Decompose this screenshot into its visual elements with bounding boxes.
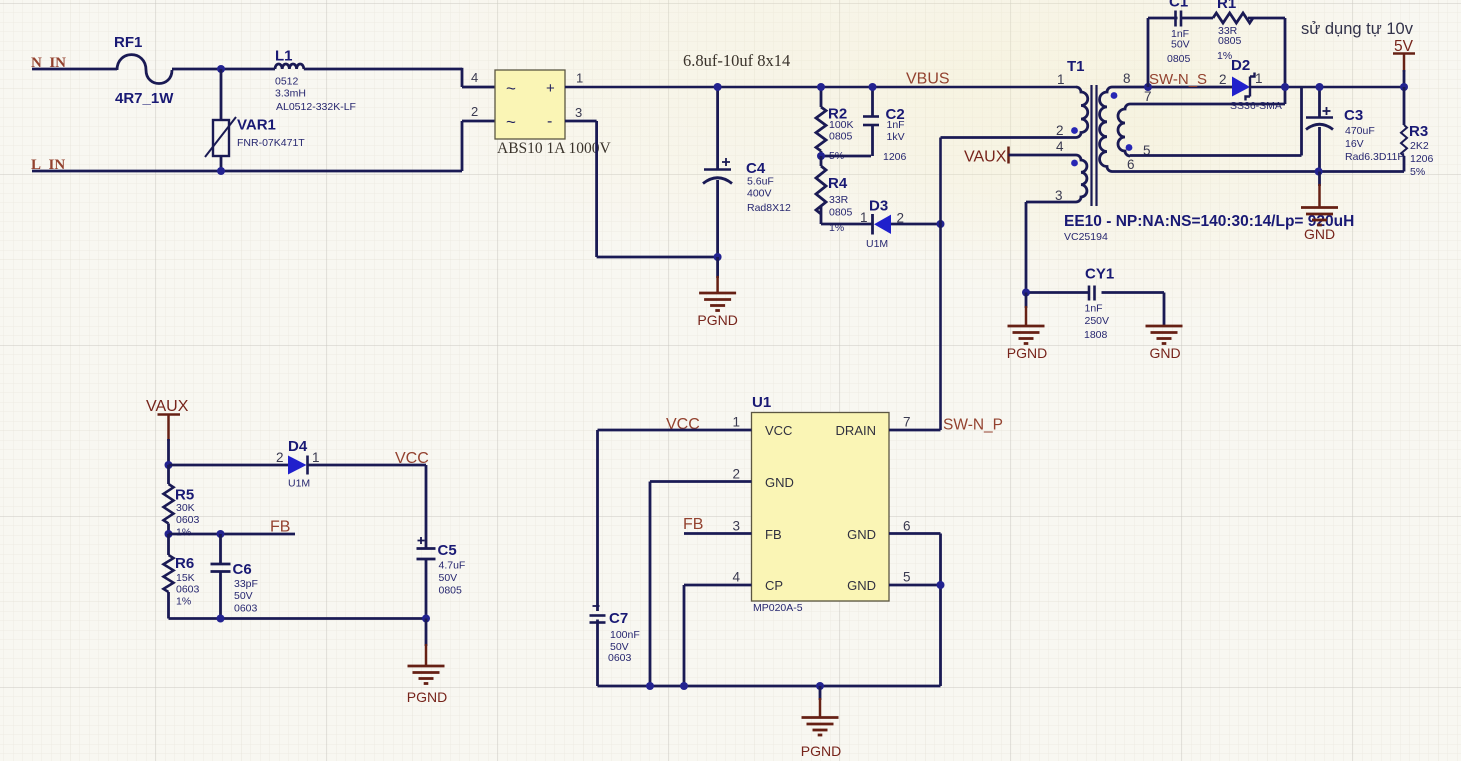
svg-text:0512: 0512 xyxy=(275,76,299,88)
svg-text:+: + xyxy=(546,80,555,97)
bridge rectifier ABS10 xyxy=(495,70,611,157)
wire transformer pin7 xyxy=(1130,103,1285,106)
svg-text:U1M: U1M xyxy=(288,478,310,490)
svg-text:5.6uF: 5.6uF xyxy=(747,176,774,188)
svg-text:C7: C7 xyxy=(609,610,628,627)
svg-text:C3: C3 xyxy=(1344,107,1363,124)
svg-text:R3: R3 xyxy=(1409,123,1428,140)
junction node L_IN / VAR1 xyxy=(217,167,225,175)
diode D3 xyxy=(860,198,904,251)
svg-text:2: 2 xyxy=(1219,72,1227,87)
svg-text:MP020A-5: MP020A-5 xyxy=(753,602,803,614)
capacitor C7 xyxy=(590,606,640,686)
wire transformer pin3 to CY1/PGND xyxy=(1026,201,1076,204)
wire D2 cathode to output xyxy=(1250,86,1404,89)
svg-text:DRAIN: DRAIN xyxy=(836,423,876,438)
svg-text:2K2: 2K2 xyxy=(1410,140,1429,152)
svg-text:1%: 1% xyxy=(176,596,191,608)
svg-text:0603: 0603 xyxy=(608,652,632,664)
svg-text:ABS10 1A 1000V: ABS10 1A 1000V xyxy=(497,140,611,157)
junction node rail/R2 xyxy=(817,83,825,91)
wire pin3 node to CY1 xyxy=(1026,291,1088,294)
junction node C3/gnd rail xyxy=(1315,168,1323,176)
svg-text:6.8uf-10uf 8x14: 6.8uf-10uf 8x14 xyxy=(683,51,790,70)
resistor R2 xyxy=(816,87,854,162)
capacitor C3 xyxy=(1306,87,1405,172)
power ground PGND under C4 xyxy=(697,257,737,328)
resistor R4 xyxy=(816,156,853,234)
svg-text:FB: FB xyxy=(765,527,782,542)
junction node VAUX/R5/D4 xyxy=(165,461,173,469)
svg-text:33R: 33R xyxy=(829,194,849,206)
svg-text:1: 1 xyxy=(312,450,320,465)
svg-text:33pF: 33pF xyxy=(234,578,258,590)
svg-text:PGND: PGND xyxy=(801,743,841,759)
svg-text:3: 3 xyxy=(732,519,740,534)
wire N_IN to RF1 xyxy=(32,68,117,71)
transformer T1 primary winding pins 1-2 xyxy=(1076,87,1088,138)
svg-text:-: - xyxy=(547,113,552,130)
junction node D3/SW-N_P xyxy=(937,220,945,228)
svg-text:0603: 0603 xyxy=(234,603,258,615)
wire snubber right vertical to pin7 xyxy=(1284,18,1287,104)
svg-text:1: 1 xyxy=(1255,71,1263,86)
varistor VAR1 xyxy=(205,69,305,171)
svg-text:4.7uF: 4.7uF xyxy=(439,560,466,572)
svg-text:SW-N_P: SW-N_P xyxy=(943,417,1003,434)
svg-text:R6: R6 xyxy=(175,555,194,572)
power port VAUX (to transformer pin 4) xyxy=(964,147,1009,166)
svg-text:VAUX: VAUX xyxy=(964,149,1007,166)
capacitor C4 xyxy=(703,87,791,257)
capacitor C6 xyxy=(211,534,258,619)
transformer T1 secondary winding pins 8-6 xyxy=(1100,87,1112,171)
svg-text:AL0512-332K-LF: AL0512-332K-LF xyxy=(276,101,356,113)
svg-text:0805: 0805 xyxy=(829,131,853,143)
wire VBUS rail from bridge pin1 to transformer pin1 xyxy=(565,86,1076,89)
svg-text:R1: R1 xyxy=(1217,0,1236,12)
wire L1 to bridge pin 4 xyxy=(304,68,462,71)
wire FB xyxy=(169,533,296,536)
svg-text:VC25194: VC25194 xyxy=(1064,231,1108,243)
capacitor C2 xyxy=(863,87,907,163)
svg-text:1%: 1% xyxy=(176,527,191,539)
svg-text:R5: R5 xyxy=(175,487,194,504)
svg-text:1%: 1% xyxy=(1217,50,1232,62)
power port VAUX bottom left xyxy=(146,398,189,465)
svg-text:~: ~ xyxy=(506,79,516,98)
svg-text:VAUX: VAUX xyxy=(146,398,189,415)
resistor RF1 (fusible) xyxy=(114,34,174,107)
svg-text:GND: GND xyxy=(765,475,794,490)
svg-text:3: 3 xyxy=(1055,188,1063,203)
svg-text:FNR-07K471T: FNR-07K471T xyxy=(237,137,305,149)
power ground PGND under U1 xyxy=(801,686,841,759)
svg-text:GND: GND xyxy=(847,527,876,542)
wire snubber left vertical xyxy=(1147,18,1150,87)
wire U1 pin5 xyxy=(889,584,941,587)
wire D3 to SW-N_P node xyxy=(891,223,941,226)
wire VAUX to transformer pin4 xyxy=(1009,154,1077,157)
svg-text:U1M: U1M xyxy=(866,238,888,250)
svg-text:4: 4 xyxy=(1056,139,1064,154)
svg-text:100K: 100K xyxy=(829,119,854,131)
svg-text:FB: FB xyxy=(270,519,290,536)
resistor R1 xyxy=(1181,0,1285,62)
svg-text:0603: 0603 xyxy=(176,584,200,596)
svg-text:0805: 0805 xyxy=(1218,35,1242,47)
svg-text:C1: C1 xyxy=(1169,0,1188,11)
ground GND under C3 xyxy=(1301,172,1338,243)
svg-text:R4: R4 xyxy=(828,175,848,192)
ground GND right of CY1 xyxy=(1146,326,1183,361)
junction node SW-N_S/snubber xyxy=(1144,83,1152,91)
power port 5V xyxy=(1393,38,1415,87)
svg-text:4: 4 xyxy=(732,570,740,585)
svg-text:1: 1 xyxy=(732,415,740,430)
wire VAUX node to D4 xyxy=(169,464,289,467)
svg-text:4R7_1W: 4R7_1W xyxy=(115,90,174,107)
svg-text:1808: 1808 xyxy=(1084,329,1108,341)
svg-text:C6: C6 xyxy=(233,561,252,578)
IC U1 body xyxy=(752,394,890,614)
wire U1 pin2 to rail xyxy=(650,480,752,483)
wire D4 to VCC corner xyxy=(308,464,427,467)
svg-text:16V: 16V xyxy=(1345,138,1364,150)
diode D2 schottky xyxy=(1230,57,1282,112)
svg-text:1: 1 xyxy=(1057,72,1065,87)
junction node at VAR1 top xyxy=(217,65,225,73)
svg-text:CP: CP xyxy=(765,578,783,593)
svg-text:470uF: 470uF xyxy=(1345,125,1375,137)
junction node rail/C2 xyxy=(869,83,877,91)
wire transformer pin8 to D2 xyxy=(1112,86,1232,89)
capacitor C1 xyxy=(1148,0,1191,65)
svg-text:1206: 1206 xyxy=(1410,153,1434,165)
junction node PGND tap xyxy=(816,682,824,690)
svg-text:SS36-SMA: SS36-SMA xyxy=(1230,100,1282,112)
junction node R5/R6/FB xyxy=(165,530,173,538)
wire U1 pin7 drain xyxy=(889,429,941,432)
svg-text:PGND: PGND xyxy=(1007,345,1047,361)
svg-text:3.3mH: 3.3mH xyxy=(275,88,306,100)
svg-text:~: ~ xyxy=(506,113,516,132)
polarity dot pin8 xyxy=(1111,92,1118,99)
svg-text:250V: 250V xyxy=(1085,315,1110,327)
svg-text:PGND: PGND xyxy=(407,689,447,705)
svg-text:8: 8 xyxy=(1123,71,1131,86)
svg-text:1nF: 1nF xyxy=(887,119,905,131)
svg-text:1: 1 xyxy=(576,71,583,86)
resistor R6 xyxy=(164,534,200,619)
junction node R2/R4 xyxy=(817,152,825,160)
resistor R5 xyxy=(164,465,200,539)
svg-text:VCC: VCC xyxy=(765,423,792,438)
svg-text:50V: 50V xyxy=(439,572,458,584)
svg-text:2: 2 xyxy=(1056,123,1064,138)
inductor L1 xyxy=(275,48,356,114)
svg-text:L1: L1 xyxy=(275,48,293,65)
resistor R3 xyxy=(1401,87,1434,178)
svg-text:2: 2 xyxy=(732,467,740,482)
transformer T1 aux winding pins 4-3 xyxy=(1076,155,1087,202)
svg-text:1206: 1206 xyxy=(883,151,907,163)
svg-text:1nF: 1nF xyxy=(1085,303,1103,315)
wire bridge pin3 down to C4 bottom xyxy=(565,120,597,123)
wire FB to U1 pin3 xyxy=(684,532,752,535)
wire U1 pin4 CP down xyxy=(684,584,752,587)
svg-text:GND: GND xyxy=(847,578,876,593)
junction node pin3/CY1/PGND xyxy=(1022,289,1030,297)
svg-text:RF1: RF1 xyxy=(114,34,142,51)
transformer T1 core xyxy=(1090,85,1092,206)
svg-text:1kV: 1kV xyxy=(887,131,905,143)
wire L_IN xyxy=(32,170,462,173)
wire transformer pin5 riser xyxy=(1130,154,1302,157)
svg-text:VCC: VCC xyxy=(395,450,429,467)
wire SW-N_P vertical xyxy=(939,138,942,431)
wire transformer pin6 to output ground rail xyxy=(1112,170,1404,173)
junction node D2 cathode / pin7 riser xyxy=(1281,83,1289,91)
svg-text:CY1: CY1 xyxy=(1085,266,1114,283)
wire U1 pin6 xyxy=(889,532,941,535)
svg-text:sử dụng tự 10v: sử dụng tự 10v xyxy=(1301,20,1414,38)
svg-text:Rad8X12: Rad8X12 xyxy=(747,202,791,214)
wire R2/C2 bottoms xyxy=(821,155,871,158)
svg-text:C5: C5 xyxy=(438,542,457,559)
svg-text:0805: 0805 xyxy=(829,207,853,219)
svg-text:2: 2 xyxy=(471,104,478,119)
svg-text:GND: GND xyxy=(1304,226,1335,242)
diode D4 xyxy=(276,438,320,490)
junction node pin2/rail xyxy=(646,682,654,690)
polarity dot pin4 xyxy=(1071,160,1078,167)
svg-text:100nF: 100nF xyxy=(610,629,640,641)
svg-text:VBUS: VBUS xyxy=(906,71,950,88)
wire R4 to D3 xyxy=(821,223,873,226)
svg-text:50V: 50V xyxy=(1171,39,1190,51)
wire RF1 to L1 xyxy=(172,68,275,71)
svg-text:PGND: PGND xyxy=(697,312,737,328)
power ground PGND bottom left xyxy=(407,619,447,706)
svg-text:GND: GND xyxy=(1149,345,1180,361)
svg-text:50V: 50V xyxy=(234,590,253,602)
junction node 5V/R3 xyxy=(1400,83,1408,91)
wire bottom-left ground rail xyxy=(169,617,427,620)
wire VCC to U1 pin1 xyxy=(598,429,752,432)
capacitor CY1 xyxy=(1084,266,1114,342)
wire U1 bottom ground rail xyxy=(598,685,941,688)
svg-text:U1: U1 xyxy=(752,394,771,411)
junction node rail/C4 xyxy=(714,83,722,91)
svg-text:30K: 30K xyxy=(176,502,195,514)
svg-text:5: 5 xyxy=(903,570,911,585)
junction node pin4/rail xyxy=(680,682,688,690)
svg-text:D3: D3 xyxy=(869,198,888,215)
power ground PGND under transformer xyxy=(1007,293,1047,362)
svg-text:15K: 15K xyxy=(176,572,195,584)
capacitor C5 xyxy=(417,537,466,619)
svg-text:D2: D2 xyxy=(1231,57,1250,74)
svg-text:FB: FB xyxy=(683,516,703,533)
polarity dot pin2 xyxy=(1071,127,1078,134)
svg-text:D4: D4 xyxy=(288,438,308,455)
svg-text:0603: 0603 xyxy=(176,514,200,526)
polarity dot pin5 xyxy=(1126,144,1133,151)
svg-text:SW-N_S: SW-N_S xyxy=(1149,71,1207,88)
junction node FB/C6 xyxy=(217,530,225,538)
transformer T1 secondary winding pins 7-5 xyxy=(1118,104,1130,156)
svg-text:5%: 5% xyxy=(1410,166,1425,178)
svg-text:1: 1 xyxy=(860,210,868,225)
svg-text:0805: 0805 xyxy=(439,585,463,597)
wire CY1 to GND xyxy=(1102,291,1165,294)
junction node pin5 xyxy=(937,581,945,589)
svg-text:0805: 0805 xyxy=(1167,53,1191,65)
junction node C6/rail xyxy=(217,615,225,623)
svg-text:7: 7 xyxy=(1144,89,1152,104)
junction node C5/rail/PGND xyxy=(422,615,430,623)
svg-text:T1: T1 xyxy=(1067,58,1085,75)
wire transformer pin2 xyxy=(941,136,1077,139)
svg-text:VAR1: VAR1 xyxy=(237,117,276,134)
svg-text:2: 2 xyxy=(276,450,284,465)
junction node output/C3 xyxy=(1316,83,1324,91)
svg-text:7: 7 xyxy=(903,415,911,430)
svg-text:4: 4 xyxy=(471,70,478,85)
svg-text:3: 3 xyxy=(575,105,582,120)
svg-text:C4: C4 xyxy=(746,160,766,177)
junction node C4 bottom xyxy=(714,253,722,261)
svg-text:Rad6.3D11H: Rad6.3D11H xyxy=(1345,151,1405,163)
svg-text:6: 6 xyxy=(903,519,911,534)
svg-text:6: 6 xyxy=(1127,157,1135,172)
svg-text:400V: 400V xyxy=(747,188,772,200)
